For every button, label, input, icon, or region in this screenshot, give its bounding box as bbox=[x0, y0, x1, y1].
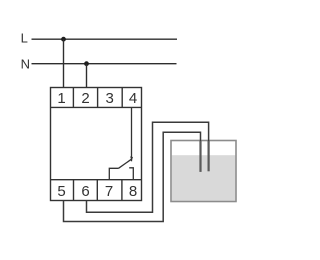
node L junction bbox=[61, 37, 66, 42]
wire terminal 6 to probe bbox=[87, 122, 209, 212]
svg-text:3: 3 bbox=[106, 90, 114, 107]
svg-text:2: 2 bbox=[81, 90, 89, 107]
wire L supply line bbox=[32, 38, 178, 40]
svg-text:5: 5 bbox=[57, 183, 65, 200]
svg-text:8: 8 bbox=[129, 183, 137, 200]
contact stationary terminal 7 bbox=[109, 168, 118, 179]
svg-text:1: 1 bbox=[57, 90, 65, 107]
wire terminal 4 to contact bbox=[131, 107, 133, 161]
wire N supply line bbox=[32, 63, 177, 65]
wire N to terminal 2 bbox=[86, 64, 88, 88]
svg-text:4: 4 bbox=[129, 90, 137, 107]
probe electrode left bbox=[199, 141, 201, 172]
node N junction bbox=[84, 61, 89, 66]
svg-text:7: 7 bbox=[105, 183, 113, 200]
probe electrode right bbox=[208, 141, 210, 171]
tank outline bbox=[171, 141, 236, 202]
svg-text:N: N bbox=[21, 56, 30, 71]
contact stationary terminal 8 bbox=[129, 168, 133, 180]
wire L to terminal 1 bbox=[63, 39, 65, 88]
liquid in tank bbox=[172, 155, 236, 201]
svg-text:L: L bbox=[21, 31, 28, 46]
contact arrowhead bbox=[130, 157, 133, 161]
wire terminal 5 to probe bbox=[64, 132, 201, 221]
relay contact blade K1 bbox=[119, 159, 133, 169]
svg-text:6: 6 bbox=[81, 183, 89, 200]
relay module U1 body bbox=[51, 88, 142, 201]
